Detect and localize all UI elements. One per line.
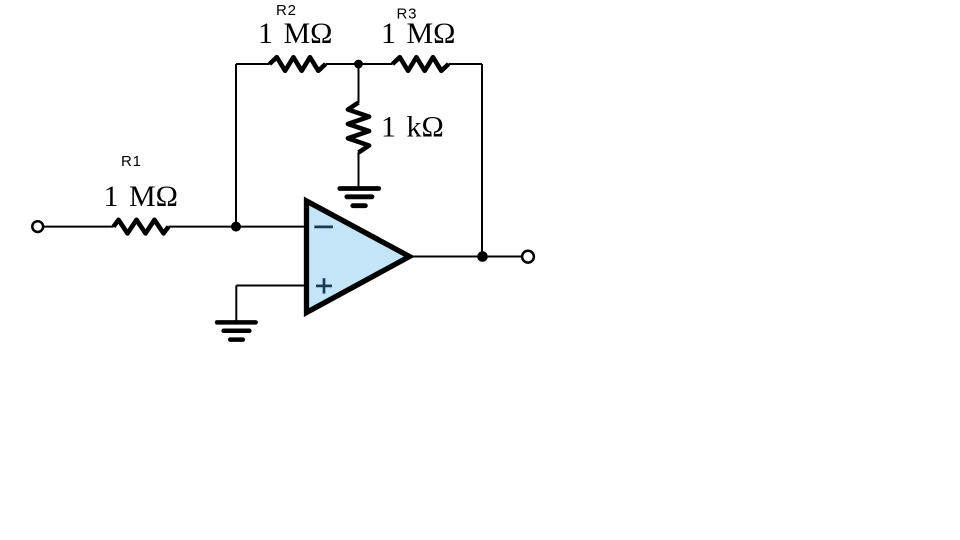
wire node B down to shunt resistor [358, 64, 360, 103]
resistor 1 kΩ shunt [348, 103, 369, 153]
node B junction dot [354, 60, 363, 69]
svg-text:1 MΩ: 1 MΩ [381, 17, 455, 50]
wire node A up to feedback rail [235, 64, 237, 227]
wire op-amp output [412, 256, 522, 258]
resistor R3 [393, 57, 449, 71]
ground (non-inverting) bar 3 [230, 337, 243, 342]
ground (shunt) bar 1 [340, 186, 379, 191]
wire right rail down to output node [481, 64, 483, 257]
wire feedback rail to R2 [236, 63, 270, 65]
svg-text:1 MΩ: 1 MΩ [104, 180, 178, 213]
op-amp non-inverting pin marker + [316, 285, 332, 288]
output node junction dot [477, 251, 488, 262]
wire non-inverting input [236, 285, 304, 287]
wire shunt resistor to ground [358, 152, 360, 187]
resistor R1 [114, 220, 169, 234]
svg-text:R1: R1 [121, 153, 142, 170]
wire R1 to inverting input (node A run) [169, 226, 305, 228]
input terminal [32, 221, 43, 232]
ground (non-inverting) bar 2 [224, 329, 250, 334]
svg-text:1 MΩ: 1 MΩ [258, 17, 332, 50]
op-amp inverting pin marker − [314, 226, 333, 229]
wire non-inverting down to ground [235, 286, 237, 321]
ground (shunt) bar 2 [347, 194, 372, 199]
svg-text:1 kΩ: 1 kΩ [381, 110, 444, 143]
op-amp U1 [307, 201, 410, 313]
node A junction dot [231, 222, 241, 232]
ground (shunt) bar 3 [353, 203, 366, 208]
wire R2 to node B [326, 63, 393, 65]
output terminal [522, 251, 534, 263]
wire R3 to right rail [449, 63, 482, 65]
resistor R2 [270, 57, 326, 71]
ground (non-inverting) bar 1 [217, 320, 256, 325]
wire input to R1 [43, 226, 114, 228]
